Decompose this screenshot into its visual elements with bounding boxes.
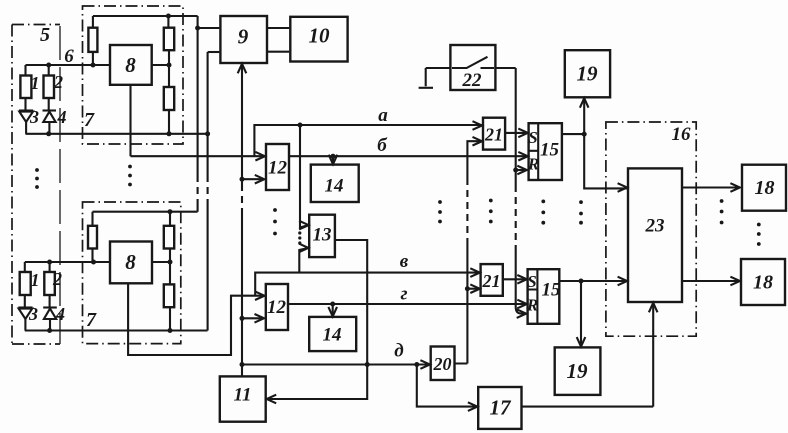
enclosure box 7 (upper stabilizer unit, dash-dot) <box>83 6 184 144</box>
diode 4 (upper) <box>43 111 57 134</box>
label 3 (upper) <box>29 107 39 127</box>
diode 3 (lower) <box>18 308 32 331</box>
svg-text:22: 22 <box>462 70 483 91</box>
block 18 (upper) <box>742 165 786 211</box>
svg-text:3: 3 <box>29 107 39 127</box>
arrowheads <box>238 64 740 411</box>
wire: block 9 input 2 <box>208 51 220 53</box>
label 3 (lower) <box>28 304 38 324</box>
wire: tap from b to 14 (upper) <box>332 156 334 163</box>
block 17 <box>478 387 521 429</box>
wire: 22 output reset line <box>495 68 525 314</box>
svg-text:11: 11 <box>234 385 252 406</box>
enclosure box 5 (divider unit, dash-dot) <box>12 25 60 345</box>
svg-text:20: 20 <box>433 354 452 374</box>
wire branch from a to 13 input 1 <box>300 125 308 228</box>
label a <box>378 105 388 126</box>
svg-text:8: 8 <box>125 53 136 77</box>
label 1 (upper) <box>31 73 40 93</box>
wires 9 to 10 <box>267 28 289 52</box>
wire: 21 output to S (lower) <box>503 278 527 280</box>
block 21 (lower) <box>481 264 503 296</box>
wire vertical: block 11 output up to block 9 <box>241 64 243 376</box>
block 10 <box>290 17 347 62</box>
svg-text:4: 4 <box>57 107 67 127</box>
wire v bus (lower channel) <box>255 273 478 296</box>
label 2 (upper) <box>53 72 63 92</box>
node 7 rail (lower) <box>25 329 208 331</box>
label 2 (lower) <box>52 269 62 289</box>
label 4 (upper) <box>57 107 67 127</box>
block 19 (upper) <box>565 50 610 97</box>
resistor 2 (upper) <box>44 65 55 111</box>
svg-text:а: а <box>378 105 388 126</box>
svg-text:7: 7 <box>86 309 97 331</box>
diode 3 (upper) <box>19 111 33 134</box>
svg-text:г: г <box>400 284 407 305</box>
block 12 (lower) <box>266 284 288 330</box>
block 8 (lower) <box>110 242 152 284</box>
block 20 <box>431 347 455 381</box>
svg-text:12: 12 <box>267 297 287 318</box>
node 6 wire (upper) <box>26 64 111 66</box>
svg-text:15: 15 <box>542 280 562 301</box>
label 7 (upper) <box>84 109 95 131</box>
enclosure box 7 (lower stabilizer unit, dash-dot) <box>83 202 181 344</box>
wire: 12 input 2 (lower) <box>242 317 264 319</box>
top rail wire (lower unit 7) <box>93 211 198 213</box>
flip-flop 15 (upper) <box>527 123 562 180</box>
wire 8 bottom pin (upper) <box>129 85 131 156</box>
svg-text:7: 7 <box>84 109 95 131</box>
svg-text:б: б <box>377 135 388 156</box>
svg-text:14: 14 <box>325 176 344 197</box>
wire 8 right pin (lower) <box>152 261 170 263</box>
svg-text:23: 23 <box>645 216 665 237</box>
wire b bus: 8 bottom pin to 12 to flip-flop R (upper channel) <box>131 155 528 157</box>
wire 8 right pin (upper) <box>152 64 169 66</box>
block 13 <box>309 215 335 257</box>
wire 8 bottom pin path to 12 (lower) <box>128 283 264 355</box>
svg-text:4: 4 <box>55 304 65 324</box>
wire: 15 output (upper) to 19 and 23 <box>562 99 627 188</box>
wire: 15 output (lower) to 19 and 23 <box>559 281 627 346</box>
svg-text:S: S <box>527 272 536 291</box>
wire: 17 output to 23 bottom <box>522 304 654 407</box>
svg-text:18: 18 <box>755 177 775 199</box>
wire vertical: rails 7 to block 9 input 2 <box>207 52 209 331</box>
wire vertical: top rails to block 9 input 1 <box>197 16 199 212</box>
wire: tap from g to 14 (lower) <box>332 304 334 316</box>
svg-text:21: 21 <box>484 125 503 145</box>
svg-text:9: 9 <box>238 25 249 49</box>
label 4 (lower) <box>55 304 65 324</box>
svg-text:12: 12 <box>268 158 288 179</box>
wire d bus <box>242 363 430 365</box>
block 8 (upper) <box>110 45 152 85</box>
resistor left of 8 (upper) <box>88 16 97 65</box>
svg-text:13: 13 <box>313 225 332 246</box>
svg-text:16: 16 <box>672 124 692 145</box>
label 16 <box>672 124 692 145</box>
svg-text:2: 2 <box>52 269 62 289</box>
block 21 (upper) <box>483 118 505 150</box>
label 1 (lower) <box>31 270 40 290</box>
svg-text:21: 21 <box>482 271 501 291</box>
block 12 (upper) <box>266 144 289 190</box>
node 6 wire (lower) <box>25 261 110 263</box>
block 14 (lower) <box>309 317 356 351</box>
top rail wire (upper unit 7) <box>93 15 198 17</box>
wire: 21 output to S (upper) <box>505 132 527 134</box>
label g <box>400 284 407 305</box>
label 7 (lower) <box>86 309 97 331</box>
wire: 12 input 2 (upper) <box>242 178 264 180</box>
wire: reset tap to R (upper) <box>516 169 527 171</box>
flip-flop 15 (lower) <box>526 269 561 324</box>
svg-text:8: 8 <box>125 250 136 274</box>
wire: 20 output up to 21 inputs <box>455 141 482 363</box>
wire: block 9 input 1 <box>198 27 220 29</box>
ground <box>419 87 433 89</box>
resistor 2 (lower) <box>44 262 55 308</box>
wire: 13 output to block 11 input <box>267 240 367 399</box>
svg-text:R: R <box>526 296 538 315</box>
diode 4 (lower) <box>43 308 57 331</box>
svg-text:19: 19 <box>567 359 589 383</box>
node 7 rail (upper) <box>26 133 208 135</box>
resistor chain right of 8 (lower) <box>164 212 174 331</box>
svg-text:5: 5 <box>40 24 50 46</box>
svg-text:19: 19 <box>577 62 599 86</box>
wire: 23 output 1 <box>682 186 739 188</box>
resistor 1 (lower) <box>20 262 31 308</box>
svg-text:S: S <box>528 128 537 147</box>
wire: 23 output 2 <box>682 280 739 282</box>
svg-text:15: 15 <box>540 140 560 161</box>
label d <box>394 341 403 362</box>
wire g bus (lower channel): 12 output to flip-flop R <box>288 303 527 305</box>
svg-text:R: R <box>527 155 539 174</box>
svg-text:д: д <box>394 341 403 362</box>
repetition dots <box>35 165 761 246</box>
svg-text:6: 6 <box>64 46 74 67</box>
block 19 (lower) <box>555 347 601 395</box>
block 9 <box>220 16 267 63</box>
resistor 1 (upper) <box>20 65 31 111</box>
wire 22 left to ground <box>426 68 451 86</box>
block 14 (upper) <box>311 165 359 202</box>
block 18 (lower) <box>741 259 785 305</box>
block 22 (switch) <box>450 45 495 91</box>
svg-text:3: 3 <box>28 304 38 324</box>
svg-text:18: 18 <box>753 272 773 294</box>
svg-text:17: 17 <box>490 396 513 420</box>
svg-text:в: в <box>400 251 409 272</box>
wire branch from v to 13 input 2 <box>299 248 307 273</box>
svg-text:1: 1 <box>31 73 40 93</box>
block 11 <box>220 376 266 421</box>
wire: tap to 21 input 2 (lower) <box>467 288 479 290</box>
label 5 <box>40 24 50 46</box>
svg-text:10: 10 <box>309 24 331 48</box>
label b <box>377 135 388 156</box>
node 6 label <box>64 46 74 67</box>
svg-text:2: 2 <box>53 72 63 92</box>
block 23 <box>628 168 682 302</box>
label v <box>400 251 409 272</box>
resistor chain right of 8 (upper) <box>164 16 174 134</box>
resistor left of 8 (lower) <box>88 212 97 262</box>
svg-text:1: 1 <box>31 270 40 290</box>
enclosure box 16 (dash-dot) <box>606 122 696 336</box>
wire a bus (upper channel) <box>254 125 482 156</box>
svg-text:14: 14 <box>323 325 342 346</box>
wire branch from d to block 17 <box>417 365 478 407</box>
